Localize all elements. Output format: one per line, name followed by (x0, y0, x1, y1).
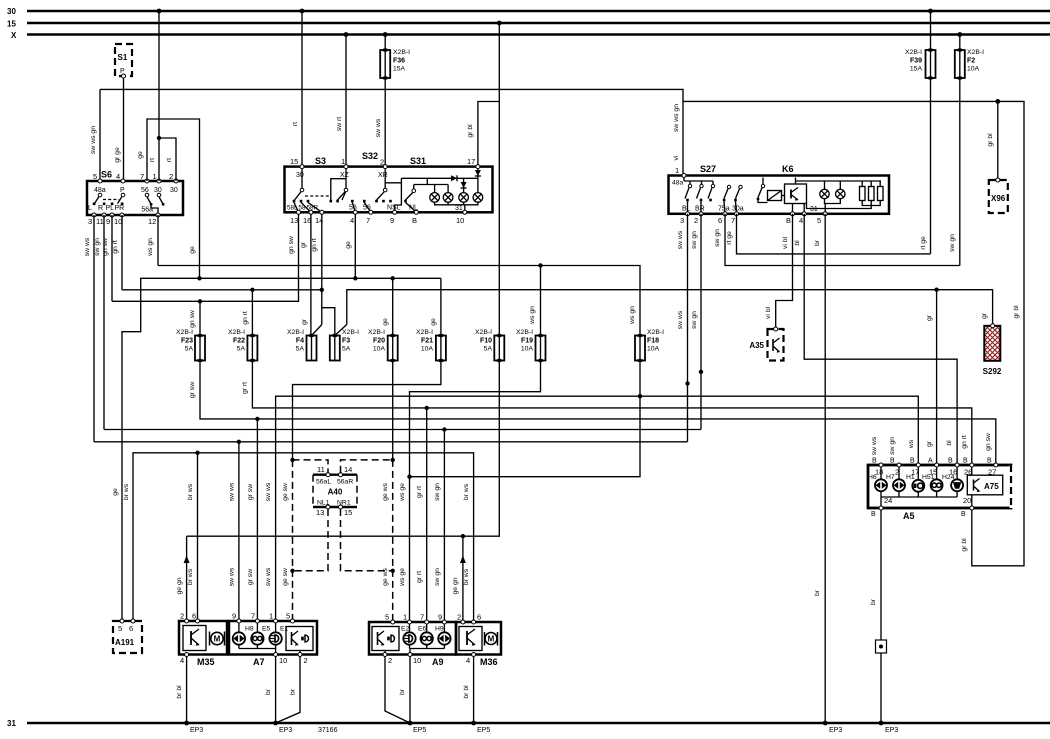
svg-text:X2B-I: X2B-I (647, 329, 664, 336)
fuse F19 (516, 329, 546, 362)
svg-text:gr rt: gr rt (416, 486, 423, 498)
fuse F18 (635, 329, 664, 362)
svg-text:F20: F20 (373, 338, 385, 345)
fuse F10 (475, 329, 504, 362)
svg-text:3: 3 (88, 217, 92, 226)
wire S6.1 from bus 30, jumper to S6.2 (149, 11, 176, 181)
svg-text:sw ws gn: sw ws gn (673, 104, 680, 132)
svg-text:10: 10 (456, 216, 464, 225)
line L4 gn sw: F23, S3.13 (112, 214, 299, 336)
svg-text:B: B (412, 216, 417, 225)
svg-text:6: 6 (129, 624, 133, 633)
svg-text:S6: S6 (101, 170, 112, 180)
svg-text:A: A (928, 458, 933, 465)
svg-text:30: 30 (296, 172, 304, 179)
relay A191 (dashed box) (113, 619, 142, 653)
instrument cluster A5 with A75 (868, 458, 1011, 522)
svg-text:sw ws: sw ws (265, 482, 272, 501)
svg-text:ws gn: ws gn (629, 306, 636, 325)
svg-text:2: 2 (169, 172, 173, 181)
wire S6.3 sw ws down to turn-left line (84, 215, 94, 442)
svg-text:PL: PL (106, 205, 115, 212)
svg-text:13: 13 (316, 508, 324, 517)
svg-text:12: 12 (148, 217, 156, 226)
svg-text:A7: A7 (253, 657, 265, 667)
fuse F21 (416, 329, 446, 362)
svg-text:20: 20 (963, 496, 971, 505)
svg-text:gr bl: gr bl (1013, 305, 1020, 319)
bus 15 (7, 20, 1050, 29)
svg-text:sw ws gn: sw ws gn (90, 126, 97, 154)
dashed wires A40.11 A40.14 (293, 460, 393, 473)
line L1 ws gn to F19 F18 (158, 263, 640, 335)
svg-text:ws gn: ws gn (529, 306, 536, 325)
svg-text:15: 15 (7, 20, 16, 29)
svg-text:5: 5 (817, 216, 821, 225)
svg-text:gr bl: gr bl (467, 124, 474, 138)
svg-text:vi bl: vi bl (765, 306, 772, 319)
svg-text:br: br (399, 688, 406, 695)
svg-text:1: 1 (403, 613, 407, 622)
svg-text:B: B (890, 458, 895, 465)
svg-text:F18: F18 (647, 338, 659, 345)
control unit A40 (daytime running light) (313, 465, 357, 517)
svg-text:5: 5 (286, 612, 290, 621)
svg-text:10: 10 (413, 656, 421, 665)
svg-text:A35: A35 (749, 341, 764, 350)
wire F10 washer feed down, across to M35.2 M36.2 (176, 361, 499, 623)
svg-text:9: 9 (438, 613, 442, 622)
svg-text:48a: 48a (672, 180, 684, 187)
svg-text:15A: 15A (910, 66, 923, 73)
svg-text:S31: S31 (410, 156, 426, 166)
svg-text:10: 10 (114, 217, 122, 226)
wire S6.11 sw gn down to turn-right line (94, 215, 104, 430)
svg-text:F22: F22 (233, 338, 245, 345)
svg-text:ws ge: ws ge (399, 483, 406, 502)
svg-text:B: B (910, 458, 915, 465)
svg-text:X2B-I: X2B-I (416, 329, 433, 336)
svg-text:ge: ge (430, 318, 437, 326)
svg-text:gn rt: gn rt (311, 238, 318, 252)
washer line A191.6 to M35.6 M36.6 br ws (123, 451, 474, 622)
line L2 ge: A191.5 S3.4 F20 F21 (112, 276, 441, 621)
wire net 48a: S6.5 up, across, down to S27.1 (90, 89, 683, 181)
svg-text:H9: H9 (435, 626, 444, 633)
wire F20 bottom ge ws to A40.14 and A9.5 (382, 361, 395, 623)
svg-text:ge gn: ge gn (452, 577, 459, 594)
fuse F4 (287, 329, 317, 361)
svg-text:br: br (814, 239, 821, 246)
svg-text:vi bl: vi bl (782, 236, 789, 249)
svg-text:B: B (872, 458, 877, 465)
svg-text:F36: F36 (393, 58, 405, 65)
svg-text:EP3: EP3 (279, 727, 292, 734)
svg-text:gn sw: gn sw (288, 236, 295, 254)
wire branch to X96 and gr bl drop (683, 99, 1024, 566)
svg-text:sw ws: sw ws (375, 118, 382, 137)
wire F18 down, across to A9.1 vertical (407, 361, 640, 479)
svg-text:F2: F2 (967, 58, 975, 65)
svg-text:sw ws: sw ws (84, 237, 91, 256)
svg-text:B: B (987, 458, 992, 465)
bus 31 (7, 719, 1050, 728)
fuse F3 (330, 329, 359, 361)
wire K6.6 75a to F2 (714, 214, 960, 266)
svg-text:4: 4 (350, 216, 354, 225)
svg-text:A9: A9 (432, 657, 444, 667)
svg-text:sw gn: sw gn (434, 568, 441, 586)
svg-text:2: 2 (694, 216, 698, 225)
svg-text:5: 5 (385, 613, 389, 622)
wire M35.4 br bl to EP3 (176, 657, 203, 735)
svg-text:10A: 10A (967, 66, 980, 73)
fuse F2 (955, 35, 984, 80)
svg-text:9: 9 (232, 612, 236, 621)
wire M36.4 br bl to EP5 (463, 657, 490, 735)
svg-text:sw ws: sw ws (229, 567, 236, 586)
wire K6.7 30a to F39 (726, 214, 931, 254)
svg-text:4: 4 (466, 656, 470, 665)
turn-left line S6.3 to K6.3 with A7.9 branch (94, 440, 688, 621)
svg-text:EP5: EP5 (477, 727, 490, 734)
wire S32.1 from bus X sw rt (336, 35, 346, 167)
svg-text:gr: gr (926, 440, 933, 447)
svg-text:ge: ge (345, 241, 352, 249)
svg-text:H8: H8 (245, 626, 254, 633)
svg-text:ge: ge (189, 246, 196, 254)
svg-text:rt: rt (292, 122, 299, 126)
svg-text:sw ws: sw ws (265, 567, 272, 586)
line gr: F3 diagonal up to S292 line, A5.15 (335, 288, 993, 466)
dashed wires A40.13 A40.15 (293, 509, 393, 571)
svg-text:sw gn: sw gn (94, 238, 101, 256)
fuse F20 (368, 329, 398, 362)
svg-text:XR: XR (378, 172, 388, 179)
svg-text:S32: S32 (362, 151, 378, 161)
svg-text:1: 1 (153, 172, 157, 181)
svg-text:NR1: NR1 (337, 500, 351, 507)
svg-text:sw ws: sw ws (677, 230, 684, 249)
wire K6.2 sw gn turn-right (691, 214, 703, 430)
svg-text:2: 2 (180, 612, 184, 621)
svg-text:ws ge: ws ge (399, 568, 406, 587)
wire S6.10 gn rt down to L3 (112, 215, 122, 290)
lamp unit A7 (front left) (229, 612, 317, 668)
svg-text:br bl: br bl (176, 685, 183, 699)
svg-text:S27: S27 (700, 164, 716, 174)
bus X (11, 31, 1050, 40)
svg-text:4: 4 (799, 216, 803, 225)
svg-text:24: 24 (884, 496, 892, 505)
svg-text:30: 30 (7, 7, 16, 16)
svg-text:30: 30 (170, 187, 178, 194)
svg-text:7: 7 (140, 172, 144, 181)
svg-text:31: 31 (7, 719, 16, 728)
junction dots on buses (157, 9, 963, 37)
svg-text:A191: A191 (115, 638, 135, 647)
svg-text:ge gn: ge gn (176, 577, 183, 594)
svg-text:A75: A75 (984, 482, 999, 491)
svg-text:br ws: br ws (187, 483, 194, 500)
wire F23 bottom gr sw to A7.7 and A5.27 (189, 361, 996, 622)
wire F22 bottom gr rt to A9.7 and A5.26 (241, 361, 971, 623)
svg-text:br ws: br ws (123, 483, 130, 500)
svg-text:ws gn: ws gn (147, 238, 154, 257)
S3.14 wire + bracket to F4/F3 tops (311, 214, 335, 336)
svg-text:H1: H1 (906, 474, 915, 481)
svg-text:A40: A40 (328, 488, 343, 497)
svg-text:br: br (290, 688, 297, 695)
svg-text:gr bl: gr bl (961, 538, 968, 552)
svg-text:S292: S292 (983, 367, 1002, 376)
svg-text:br: br (265, 688, 272, 695)
line L3 gn rt: F22, S3.14, bracket to F4 F3 (122, 288, 324, 336)
svg-text:17: 17 (467, 157, 475, 166)
svg-text:sw gn: sw gn (691, 311, 698, 329)
svg-text:B: B (963, 458, 968, 465)
svg-text:30: 30 (154, 187, 162, 194)
svg-text:ge sw: ge sw (282, 483, 289, 501)
svg-text:X2B-I: X2B-I (368, 329, 385, 336)
svg-text:31: 31 (455, 205, 463, 212)
wire S6.7 ge up-over-down to L2 (137, 119, 200, 278)
S3.4 wire ge to L2 (345, 214, 355, 278)
svg-text:ge ws: ge ws (382, 483, 389, 501)
svg-text:X2B-I: X2B-I (228, 329, 245, 336)
svg-text:10: 10 (279, 656, 287, 665)
svg-text:NL1: NL1 (317, 500, 330, 507)
wire S6.12 ws gn down to L1 (147, 215, 158, 266)
wire F36 to S32.2 sw ws (375, 78, 385, 167)
svg-text:gn sw: gn sw (985, 433, 992, 451)
svg-text:rt ge: rt ge (920, 236, 927, 250)
svg-text:br ws: br ws (463, 483, 470, 500)
svg-text:5A: 5A (185, 346, 194, 353)
svg-text:5A: 5A (237, 346, 246, 353)
motor unit M36 (washer pump rear) (456, 613, 501, 668)
svg-text:H6: H6 (868, 474, 877, 481)
svg-text:M: M (214, 635, 221, 644)
svg-text:EP5: EP5 (413, 727, 426, 734)
fuse F36 (380, 35, 410, 80)
svg-text:F3: F3 (342, 338, 350, 345)
svg-text:BL: BL (682, 206, 691, 213)
wire F19 bottom to A9.1 ws ge (399, 361, 541, 623)
svg-text:ge: ge (112, 488, 119, 496)
svg-text:7: 7 (366, 216, 370, 225)
svg-text:ge sw: ge sw (282, 568, 289, 586)
fuse F23 (176, 329, 205, 362)
svg-text:K6: K6 (782, 164, 794, 174)
svg-text:gn rt: gn rt (961, 435, 968, 449)
svg-text:1: 1 (675, 166, 679, 175)
svg-text:E5: E5 (262, 626, 271, 633)
svg-text:3: 3 (680, 216, 684, 225)
svg-text:E6: E6 (418, 626, 427, 633)
turn-right line S6.11 to K6.2 with A9.9 branch (104, 427, 701, 622)
svg-text:X2B-I: X2B-I (967, 49, 984, 56)
svg-text:B: B (871, 511, 876, 518)
wire F10 feed from bus 15 down to washer pumps (498, 23, 500, 336)
svg-text:gr: gr (926, 314, 933, 321)
svg-text:2: 2 (304, 656, 308, 665)
svg-text:7: 7 (251, 612, 255, 621)
svg-text:ge: ge (382, 318, 389, 326)
svg-text:rt ge: rt ge (726, 231, 733, 245)
svg-text:gr sw: gr sw (247, 484, 254, 500)
svg-text:R: R (98, 205, 103, 212)
svg-text:gn rt: gn rt (112, 240, 119, 254)
sensor A35 (dashed, transistor) (749, 327, 783, 361)
svg-text:F19: F19 (521, 338, 533, 345)
wire F21 bottom ge sw to A40.11 and A7.5 (282, 361, 441, 622)
svg-text:15A: 15A (393, 66, 406, 73)
switch unit S3 S32 S31 (light switch) (285, 151, 493, 225)
wire F39 down to K6.7 rail (920, 78, 931, 254)
connector X96 (dashed box) (989, 178, 1008, 213)
svg-text:5: 5 (93, 172, 97, 181)
svg-text:S3: S3 (315, 156, 326, 166)
svg-text:10A: 10A (373, 346, 386, 353)
switch S1 (dashed box, P) (115, 44, 132, 78)
svg-text:F4: F4 (296, 338, 304, 345)
svg-text:F10: F10 (480, 338, 492, 345)
svg-text:X2B-I: X2B-I (342, 329, 359, 336)
svg-text:gr bl: gr bl (987, 133, 994, 147)
svg-text:X2B-I: X2B-I (475, 329, 492, 336)
ground EP3 for K6.5 (823, 721, 843, 734)
svg-text:5A: 5A (342, 346, 351, 353)
svg-text:gr: gr (300, 241, 307, 248)
wire A7.10 A7.2 br to EP3 (265, 657, 300, 735)
svg-text:6: 6 (718, 216, 722, 225)
svg-text:9: 9 (106, 217, 110, 226)
svg-text:7: 7 (420, 613, 424, 622)
svg-text:4: 4 (116, 172, 120, 181)
svg-text:30a: 30a (732, 206, 744, 213)
svg-text:S1: S1 (118, 53, 128, 62)
svg-text:M: M (488, 635, 495, 644)
bus 30 (7, 7, 1050, 16)
svg-text:sw ws: sw ws (871, 436, 878, 455)
svg-text:F39: F39 (910, 58, 922, 65)
svg-text:7: 7 (731, 216, 735, 225)
svg-text:14: 14 (315, 216, 323, 225)
ground EP3 for A5.24 (879, 721, 899, 734)
svg-text:EP3: EP3 (885, 727, 898, 734)
svg-text:H7: H7 (886, 474, 895, 481)
svg-text:37166: 37166 (318, 727, 338, 734)
svg-text:11: 11 (96, 217, 104, 226)
svg-text:ge: ge (137, 151, 144, 159)
svg-text:sw ws: sw ws (677, 310, 684, 329)
wire S31.17 gr bl to 15-feed (467, 102, 499, 167)
svg-text:sw ws: sw ws (229, 482, 236, 501)
svg-text:gr sw: gr sw (189, 382, 196, 398)
svg-text:PR: PR (115, 205, 125, 212)
svg-text:15: 15 (344, 508, 352, 517)
svg-text:10A: 10A (421, 346, 434, 353)
svg-text:X2B-I: X2B-I (393, 49, 410, 56)
svg-text:6: 6 (192, 612, 196, 621)
fuse F39 (905, 11, 936, 80)
svg-text:br ws: br ws (187, 568, 194, 585)
svg-text:E2: E2 (401, 626, 410, 633)
svg-text:br: br (870, 598, 877, 605)
svg-text:ws: ws (908, 439, 915, 449)
svg-text:bl: bl (794, 240, 801, 246)
wire S1 to S6.4 gr ge (114, 78, 124, 181)
svg-text:rt: rt (166, 158, 173, 162)
svg-text:sw rt: sw rt (336, 117, 343, 131)
motor unit M35 (washer pump front) (179, 612, 227, 668)
relay unit S27 / K6 (hazard switch + flasher relay) (669, 164, 890, 225)
svg-text:br ws: br ws (463, 568, 470, 585)
svg-text:X2B-I: X2B-I (516, 329, 533, 336)
wire A5.24 br to ground with splice (870, 510, 887, 723)
svg-text:B: B (961, 511, 966, 518)
svg-text:5: 5 (118, 624, 122, 633)
wire K6.3 sw ws turn-left (677, 214, 690, 442)
svg-text:gn rt: gn rt (242, 311, 249, 325)
svg-text:13: 13 (290, 216, 298, 225)
svg-text:10A: 10A (521, 346, 534, 353)
svg-text:15: 15 (290, 157, 298, 166)
wire K6.4 bl to A5.16 (794, 214, 957, 465)
svg-text:5A: 5A (296, 346, 305, 353)
svg-text:gr sw: gr sw (247, 569, 254, 585)
fuse F22 (228, 329, 257, 362)
svg-text:M35: M35 (197, 657, 215, 667)
svg-text:EP3: EP3 (190, 727, 203, 734)
svg-text:F21: F21 (421, 338, 433, 345)
svg-text:sw gn: sw gn (691, 231, 698, 249)
wire S3.15 from bus 30 rt (292, 11, 302, 167)
svg-text:rt: rt (149, 158, 156, 162)
svg-text:vi: vi (673, 155, 680, 160)
svg-text:gr: gr (301, 318, 308, 325)
svg-text:gr rt: gr rt (241, 382, 248, 394)
svg-text:56aR: 56aR (337, 479, 353, 486)
svg-text:2: 2 (388, 656, 392, 665)
svg-text:sw gn: sw gn (949, 234, 956, 252)
svg-text:75a: 75a (718, 206, 730, 213)
svg-text:58L: 58L (287, 205, 298, 212)
S3.16 wire gr to F4 (300, 214, 311, 336)
svg-text:9: 9 (390, 216, 394, 225)
wire S6.9 gn sw down to L4 (102, 215, 112, 301)
svg-text:gn sw: gn sw (102, 238, 109, 256)
svg-text:A5: A5 (903, 511, 915, 521)
switch unit S6 (turn signal switch) (87, 170, 183, 227)
svg-text:br: br (814, 589, 821, 596)
wire K6.5 br ground (814, 214, 825, 723)
svg-text:X2B-I: X2B-I (905, 49, 922, 56)
svg-text:gr: gr (981, 312, 988, 319)
svg-text:sw gn: sw gn (889, 437, 896, 455)
svg-text:XZ: XZ (340, 172, 350, 179)
svg-text:2: 2 (457, 613, 461, 622)
svg-text:B: B (786, 216, 791, 225)
svg-text:X2B-I: X2B-I (287, 329, 304, 336)
svg-text:6: 6 (477, 613, 481, 622)
svg-text:L: L (88, 205, 92, 212)
svg-text:4: 4 (180, 656, 184, 665)
svg-text:1: 1 (269, 612, 273, 621)
svg-text:56a: 56a (141, 207, 153, 214)
svg-text:BR: BR (695, 206, 705, 213)
